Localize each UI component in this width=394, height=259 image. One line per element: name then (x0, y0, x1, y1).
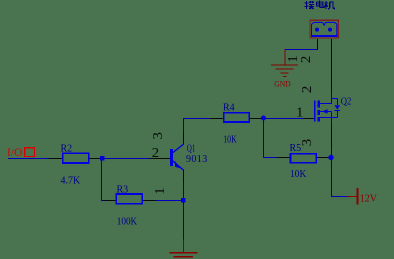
wire junction C to Q2 gate (264, 118, 304, 120)
wire connector pin1 to GND (285, 50, 318, 51)
connector outer body (310, 20, 338, 38)
junction C (R4 / Q2 gate / R5) (261, 116, 266, 121)
connector inner outline with screw arcs (312, 22, 337, 36)
connector pin 1 lead (317, 39, 319, 50)
label 接电机 (305, 1, 335, 9)
wire I/O to R2 (8, 158, 49, 160)
Q2 gate bar (314, 101, 316, 122)
wire Q1 collector up and right to R4 (184, 119, 211, 132)
Q1 emitter arrow (175, 161, 181, 169)
svg-text:Q1: Q1 (187, 144, 196, 155)
Q1 emitter pin (183, 170, 185, 183)
power port GND (271, 50, 298, 89)
Q1 base pin (149, 158, 170, 160)
resistor R4 (210, 113, 264, 122)
Q1 collector pin (183, 132, 185, 145)
Q2 source pin (331, 118, 333, 151)
junction A (R2 / R3 / Q1 base) (100, 156, 104, 160)
Q2 source link (320, 117, 337, 119)
svg-text:R3: R3 (117, 185, 129, 196)
mosfet Q2 (303, 99, 340, 151)
svg-text:2: 2 (299, 86, 314, 93)
svg-text:3: 3 (299, 139, 314, 147)
Q1 emitter diagonal (173, 161, 184, 170)
svg-text:10K: 10K (290, 169, 307, 180)
svg-text:1: 1 (152, 187, 167, 194)
svg-text:10K: 10K (223, 135, 237, 146)
wire junction A to Q1 base (102, 158, 149, 160)
resistor R5 (277, 154, 329, 163)
ground (power ground below Q1) (169, 240, 197, 257)
Q2 drain pin stub (331, 99, 333, 104)
Q2 drain link (320, 99, 331, 104)
wire Q1 emitter down to ground (183, 183, 185, 240)
svg-text:9013: 9013 (186, 154, 208, 165)
resistor R2 (49, 153, 102, 163)
机 (324, 1, 334, 9)
电 (317, 1, 324, 8)
Q2 channel segment body (317, 110, 320, 115)
resistor R3 (103, 194, 156, 204)
power port 12V (347, 188, 378, 205)
svg-text:R2: R2 (61, 144, 73, 155)
svg-text:12V: 12V (360, 194, 378, 205)
connector header 接电机 (310, 20, 338, 91)
svg-text:Q2: Q2 (341, 96, 352, 107)
svg-text:R4: R4 (223, 103, 235, 114)
connector pin 2 lead (331, 39, 333, 92)
transistor Q1 (149, 132, 184, 183)
net label I/O口 (7, 147, 35, 159)
svg-text:2: 2 (298, 56, 313, 63)
Q2 channel segment source (317, 117, 320, 122)
svg-text:100K: 100K (117, 217, 138, 228)
svg-text:GND: GND (274, 78, 291, 88)
wire R3 to junction B (156, 200, 184, 202)
svg-text:4.7K: 4.7K (61, 176, 82, 187)
wire Q2 source to junction D and down to 12V (332, 150, 348, 197)
connector terminal dot 2 (328, 28, 332, 32)
Q2 channel segment drain (317, 101, 320, 108)
junction B (R3 / Q1 emitter / ground) (181, 198, 185, 202)
wire junction C down to R5 (264, 119, 278, 158)
svg-text:2: 2 (152, 145, 159, 160)
Q1 base bar (170, 149, 173, 166)
svg-text:I/O: I/O (7, 147, 22, 159)
Q2 gate pin (303, 118, 314, 120)
接 (305, 1, 314, 9)
svg-text:3: 3 (150, 132, 165, 140)
wire connector pin 2 to Q2 drain (331, 91, 333, 99)
connector terminal dot 1 (315, 28, 319, 32)
Q1 collector diagonal (173, 144, 184, 152)
junction D (R5 / Q2 source / 12V) (328, 155, 333, 160)
wire junction A down to R3 (102, 159, 105, 201)
svg-text:1: 1 (296, 104, 303, 119)
Q2 body diode (332, 98, 338, 100)
Q2 body link with substrate arrow (320, 111, 331, 113)
